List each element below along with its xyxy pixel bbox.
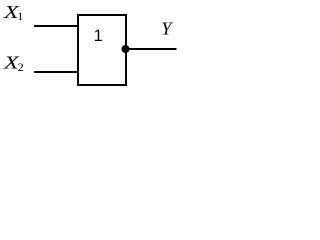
wire: output to Y [126, 48, 177, 50]
svg-text:1: 1 [17, 9, 23, 23]
or-gate U1 (IEC "1" box) [78, 15, 126, 85]
svg-text:2: 2 [18, 60, 24, 74]
wire: input X1 to gate [34, 25, 77, 27]
svg-text:Y: Y [161, 19, 173, 39]
wire: input X2 to gate [34, 71, 77, 73]
junction dot on output [122, 45, 130, 53]
svg-text:1: 1 [94, 27, 103, 45]
